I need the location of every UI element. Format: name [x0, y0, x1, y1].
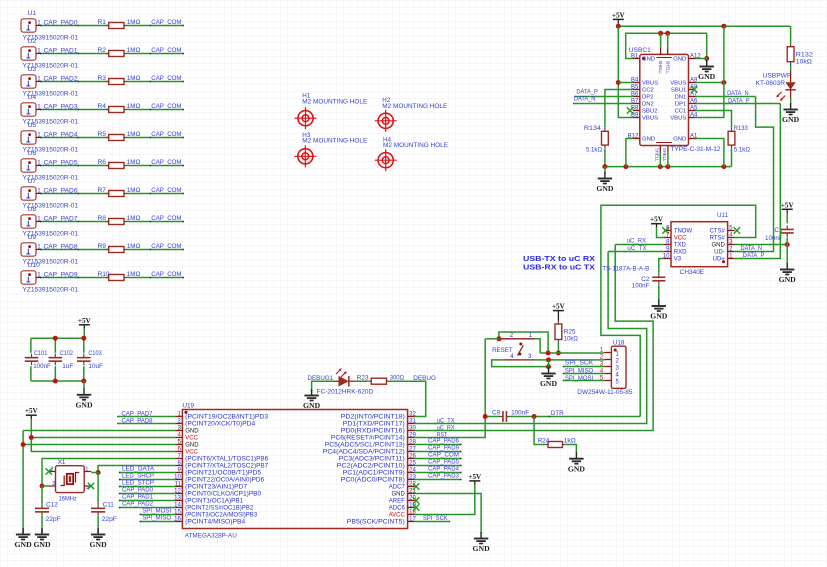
svg-text:(PCINT2/SS#/OC1B)PB2: (PCINT2/SS#/OC1B)PB2 [185, 506, 254, 512]
svg-text:SPI_SCK: SPI_SCK [565, 360, 594, 367]
wire [389, 381, 426, 416]
wire [40, 81, 108, 83]
net label CAP_PAD6 [44, 187, 80, 194]
svg-text:CAP_PAD2: CAP_PAD2 [44, 75, 78, 82]
svg-text:GND: GND [779, 275, 797, 284]
svg-text:100nF: 100nF [511, 410, 529, 417]
wire [667, 33, 669, 47]
pin 20 AREF [389, 494, 417, 504]
wire [618, 26, 633, 117]
net label CAP_COM [149, 75, 181, 82]
wire [658, 285, 660, 301]
wire [415, 472, 462, 474]
resistor R8 [98, 215, 141, 224]
svg-text:KT-0603R: KT-0603R [756, 80, 786, 87]
resistor R7 [98, 187, 141, 196]
wire [626, 139, 633, 167]
svg-text:CAP_COM: CAP_COM [151, 243, 181, 250]
pin 23 PC0(ADC0/PCINT8) [341, 473, 417, 483]
svg-text:TS-1187A-B-A-B: TS-1187A-B-A-B [602, 265, 649, 272]
svg-text:SHELL: SHELL [654, 148, 659, 162]
svg-text:R1: R1 [98, 19, 107, 26]
net label CAP_COM [149, 215, 181, 222]
svg-text:DN1: DN1 [675, 95, 687, 101]
junction [704, 56, 709, 61]
wire [127, 165, 185, 167]
resistor R133 [728, 125, 750, 153]
pin 4 RTS# [710, 231, 735, 241]
svg-text:uC_RX: uC_RX [627, 238, 647, 245]
wire [696, 82, 724, 84]
svg-text:TYPE-C-31-M-12: TYPE-C-31-M-12 [671, 146, 721, 153]
wire [127, 81, 185, 83]
svg-text:PC4(ADC4/SDA/PCINT12): PC4(ADC4/SDA/PCINT12) [323, 450, 405, 456]
svg-text:SBU2: SBU2 [642, 109, 657, 115]
no-connect pin 22 [413, 483, 419, 489]
junction [53, 336, 87, 384]
annotation USB-RX to uC TX [523, 263, 595, 272]
svg-text:(PCINT4/MISO)PB4: (PCINT4/MISO)PB4 [185, 520, 246, 526]
capsense pad U5 [21, 122, 78, 153]
svg-text:GND: GND [782, 115, 800, 124]
svg-text:DW254W-11-05-85: DW254W-11-05-85 [577, 389, 633, 396]
no-connect SBU2 [627, 107, 633, 113]
svg-text:USB-RX to uC TX: USB-RX to uC TX [523, 263, 595, 272]
wire [127, 249, 185, 251]
crystal X1 16MHz [48, 459, 91, 502]
net label CAP_PAD6 [428, 438, 459, 445]
net label SPI_MOSI [563, 375, 594, 382]
svg-text:DATA_P: DATA_P [576, 89, 598, 96]
wire [40, 221, 108, 223]
svg-text:VCC: VCC [185, 436, 198, 442]
wire [696, 139, 724, 167]
svg-text:CAP_PAD1: CAP_PAD1 [44, 47, 78, 54]
wire [127, 193, 185, 195]
svg-text:R8: R8 [98, 215, 107, 222]
no-connect SBU1 [691, 86, 697, 92]
wire [696, 103, 781, 105]
power +5V [25, 407, 39, 419]
ground [15, 528, 33, 549]
svg-text:SHELL: SHELL [658, 61, 663, 75]
net label CAP_PAD5 [428, 459, 459, 466]
svg-text:(PCINT23/AIN1)PD7: (PCINT23/AIN1)PD7 [185, 485, 248, 491]
svg-text:GND: GND [568, 464, 586, 473]
pin 29 PC6(RESET#/PCINT14) [331, 431, 417, 441]
svg-text:R2: R2 [98, 47, 107, 54]
svg-text:DN2: DN2 [642, 102, 654, 108]
svg-text:U18: U18 [613, 340, 625, 347]
svg-text:22pF: 22pF [46, 516, 61, 523]
svg-text:U9: U9 [28, 234, 37, 241]
wire [40, 25, 108, 27]
power +5V [612, 11, 626, 23]
svg-text:LED_SHCP: LED_SHCP [122, 473, 154, 480]
svg-text:RESET: RESET [492, 347, 513, 354]
wire [485, 416, 500, 418]
wire [618, 82, 633, 84]
net label DEBUG [413, 375, 436, 382]
svg-text:+5V: +5V [612, 11, 626, 19]
svg-text:CAP_COM: CAP_COM [151, 103, 181, 110]
net label CAP_PAD3 [44, 103, 80, 110]
mounting hole H1 [295, 92, 368, 129]
wire [499, 332, 548, 353]
pin 1 (PCINT19/OC2B/INT1)PD3 [175, 410, 269, 420]
junction [40, 484, 45, 489]
svg-text:U10: U10 [28, 262, 41, 269]
svg-text:GND: GND [75, 400, 93, 409]
wire [119, 507, 176, 509]
junction [532, 414, 537, 419]
svg-text:RXD: RXD [674, 250, 687, 256]
svg-text:AVCC: AVCC [389, 513, 406, 519]
net label CAP_COM [149, 103, 181, 110]
capacitor C2 [632, 273, 665, 289]
resistor R132 [787, 43, 813, 65]
pin 7 (PCINT6/XTAL1/TOSC1)PB6 [175, 452, 268, 462]
svg-text:CAP_COM: CAP_COM [151, 75, 181, 82]
svg-text:+5V: +5V [781, 201, 795, 209]
svg-text:CTS#: CTS# [709, 229, 725, 235]
junction [546, 357, 551, 362]
wire [54, 338, 56, 381]
svg-text:LED_DATA: LED_DATA [122, 466, 155, 473]
wire [786, 213, 788, 223]
pin A8 SBU1 [671, 84, 698, 93]
svg-text:22pF: 22pF [102, 516, 117, 523]
connector U18 DW254W-11-05-85 [577, 340, 633, 397]
resistor R2 [98, 47, 141, 56]
svg-text:GND: GND [540, 379, 558, 388]
pin 14 (PCINT2/SS#/OC1B)PB2 [174, 501, 254, 511]
pin 32 PD2(INT0/PCINT18) [341, 410, 417, 420]
svg-text:100nF: 100nF [632, 283, 650, 290]
svg-text:U2: U2 [28, 38, 37, 45]
svg-text:CAP_PAD3: CAP_PAD3 [428, 473, 459, 480]
wire [564, 380, 605, 382]
svg-text:(PCINT7/XTAL2/TOSC2)PB7: (PCINT7/XTAL2/TOSC2)PB7 [185, 464, 269, 470]
wire [510, 416, 641, 418]
svg-text:(PCINT22/OC0A/AIN0)PD6: (PCINT22/OC0A/AIN0)PD6 [185, 478, 265, 484]
svg-text:R3: R3 [98, 75, 107, 82]
resistor R3 [98, 75, 141, 84]
net label uC_TX [435, 417, 456, 424]
resistor R10 [98, 271, 141, 280]
wire [706, 59, 708, 63]
LED USBPWR KT-0603R [756, 65, 796, 104]
svg-text:GND: GND [33, 540, 51, 549]
wire [127, 109, 185, 111]
svg-text:R4: R4 [98, 103, 107, 110]
net label SPI_MISO [142, 515, 171, 522]
wire [564, 366, 605, 368]
svg-text:CAP_PAD0: CAP_PAD0 [122, 487, 153, 494]
svg-text:CAP_PAD2: CAP_PAD2 [122, 501, 153, 508]
svg-text:VCC: VCC [674, 236, 687, 242]
svg-text:CAP_PAD9: CAP_PAD9 [44, 271, 78, 278]
svg-text:C101: C101 [34, 350, 48, 357]
svg-text:CAP_PAD0: CAP_PAD0 [44, 19, 78, 26]
svg-text:GND: GND [698, 72, 716, 81]
wire [83, 381, 85, 389]
svg-text:PC6(RESET#/PCINT14): PC6(RESET#/PCINT14) [331, 436, 405, 442]
junction [546, 364, 551, 369]
svg-text:V3: V3 [674, 257, 682, 263]
svg-text:CAP_PAD7: CAP_PAD7 [44, 215, 78, 222]
resistor R9 [98, 243, 141, 252]
svg-text:LED_STCP: LED_STCP [122, 480, 154, 487]
pin 5 CTS# [709, 224, 734, 234]
ground [473, 532, 491, 553]
wire [485, 338, 499, 340]
net label CAP_COM [149, 243, 181, 250]
wire [790, 26, 792, 43]
net label CAP_PAD0 [44, 19, 80, 26]
annotation USB-TX to uC RX [523, 254, 595, 263]
svg-text:1kΩ: 1kΩ [564, 438, 576, 445]
svg-text:C1: C1 [774, 227, 783, 234]
pin 7 VCC [664, 231, 687, 241]
svg-text:R133: R133 [734, 125, 749, 132]
svg-text:M2 MOUNTING HOLE: M2 MOUNTING HOLE [382, 103, 447, 110]
pin 3 GND [711, 238, 734, 248]
wire [119, 500, 176, 502]
svg-text:AREF: AREF [389, 499, 405, 505]
junction [658, 31, 670, 36]
pin 27 PC4(ADC4/SDA/PCINT12) [323, 445, 417, 455]
wire [626, 33, 707, 58]
net label DATA_N [725, 90, 749, 97]
wire [534, 417, 545, 445]
ground [650, 300, 668, 321]
wire [40, 53, 108, 55]
capsense pad U8 [21, 206, 78, 237]
svg-text:VBUS: VBUS [670, 116, 686, 122]
svg-text:CAP_COM: CAP_COM [151, 215, 181, 222]
wire [667, 153, 669, 167]
net label DATA_P [574, 89, 598, 98]
svg-text:3: 3 [52, 481, 55, 487]
wire [40, 109, 108, 111]
wire [657, 228, 665, 238]
svg-text:(PCINT20/XCK/T0)PD4: (PCINT20/XCK/T0)PD4 [185, 422, 256, 428]
wire [23, 430, 175, 432]
svg-text:U8: U8 [28, 206, 37, 213]
junction [785, 242, 790, 247]
capacitor C11 [91, 502, 117, 523]
wire [492, 360, 549, 367]
wire [617, 23, 619, 26]
pin 25 PC2(ADC2/PCINT10) [337, 459, 417, 469]
pin 2 (PCINT20/XCK/T0)PD4 [175, 417, 256, 427]
junction [602, 164, 726, 169]
pin 10 (PCINT22/OC0A/AIN0)PD6 [174, 473, 265, 483]
ground [75, 388, 93, 409]
MCU U19 ATMEGA328P-AU box [182, 403, 407, 540]
pin 9 RXD [664, 245, 687, 255]
ground [568, 452, 586, 473]
net label CAP_PAD5 [44, 159, 80, 166]
svg-text:C9: C9 [492, 410, 501, 417]
pin SHELL bottom [654, 143, 672, 162]
svg-text:CAP_COM: CAP_COM [151, 47, 181, 54]
net label CAP_COM [149, 19, 181, 26]
wire [415, 465, 462, 467]
wire [574, 103, 633, 105]
svg-text:GND: GND [642, 137, 655, 143]
pin A4 VBUS [670, 112, 698, 121]
net label CAP_PAD9 [428, 445, 459, 452]
wire [696, 111, 732, 128]
pin 9 (PCINT21/OC0B/T1)PD5 [175, 466, 262, 476]
svg-text:ATMEGA328P-AU: ATMEGA328P-AU [185, 533, 237, 540]
wire [40, 165, 108, 167]
capsense pad U2 [21, 38, 78, 69]
junction [483, 414, 488, 419]
net label CAP_PAD4 [428, 466, 459, 473]
wire [139, 521, 175, 523]
wire [415, 252, 647, 424]
no-connect X1 pin4 [88, 483, 94, 489]
wire [40, 249, 108, 251]
svg-text:PC2(ADC2/PCINT10): PC2(ADC2/PCINT10) [337, 464, 405, 470]
net label SPI_MOSI [142, 508, 171, 515]
net label CAP_PAD2 [44, 75, 80, 82]
wire [415, 245, 653, 431]
capsense pad U6 [21, 150, 78, 181]
svg-text:C11: C11 [103, 502, 115, 509]
svg-text:U5: U5 [28, 122, 37, 129]
wire [31, 419, 175, 451]
pin 2 UD- [714, 245, 734, 255]
svg-text:PD2(INT0/PCINT18): PD2(INT0/PCINT18) [341, 415, 405, 421]
svg-text:CH340E: CH340E [680, 269, 704, 276]
svg-text:+5V: +5V [552, 303, 566, 311]
svg-text:CAP_PAD9: CAP_PAD9 [428, 445, 459, 452]
svg-text:USBPWR: USBPWR [763, 73, 793, 80]
svg-text:PD0(RXD/PCINT16): PD0(RXD/PCINT16) [341, 429, 405, 435]
net label CAP_COM [149, 187, 181, 194]
wire [127, 25, 185, 27]
capacitor C1 [765, 225, 794, 242]
wire [604, 167, 606, 173]
svg-text:CC1: CC1 [675, 109, 687, 115]
svg-text:CAP_PAD6: CAP_PAD6 [44, 187, 78, 194]
net label DATA_P [726, 97, 750, 104]
ground [779, 263, 797, 284]
net label DATA_P [741, 252, 765, 260]
USB-UART U11 CH340E box [671, 212, 729, 276]
wire [415, 339, 486, 438]
svg-text:R23: R23 [357, 374, 369, 381]
svg-text:11: 11 [175, 480, 182, 487]
wire [97, 516, 99, 533]
svg-text:CAP_COM: CAP_COM [151, 271, 181, 278]
svg-text:SHELL: SHELL [662, 148, 667, 162]
svg-text:PC0(ADC0/PCINT8): PC0(ADC0/PCINT8) [341, 478, 405, 484]
junction [29, 435, 34, 440]
mounting hole H3 [294, 132, 367, 167]
net label CAP_PAD1 [122, 494, 153, 501]
svg-text:U3: U3 [28, 66, 37, 73]
wire [127, 277, 185, 279]
wire [41, 516, 43, 533]
svg-text:U1: U1 [28, 10, 37, 17]
pin 8 TXD [664, 238, 686, 248]
wire [118, 423, 175, 425]
svg-text:(PCINT19/OC2B/INT1)PD3: (PCINT19/OC2B/INT1)PD3 [185, 415, 269, 421]
no-connect TNOW [662, 227, 668, 233]
svg-text:SPI_MISO: SPI_MISO [142, 515, 171, 522]
net label CAP_PAD8 [44, 243, 80, 250]
svg-text:VBUS: VBUS [670, 81, 686, 87]
svg-text:10uF: 10uF [88, 363, 103, 370]
wire [601, 205, 756, 416]
pin 24 PC1(ADC1/PCINT9) [343, 466, 417, 476]
svg-text:UD+: UD+ [713, 257, 726, 263]
wire [415, 451, 462, 453]
wire [42, 485, 48, 487]
resistor R5 [98, 131, 141, 140]
pin 31 PD1(TXD/PCINT17) [343, 417, 417, 427]
pin 26 PC3(ADC3/PCINT11) [339, 452, 417, 462]
junction [21, 442, 26, 447]
ground [596, 172, 614, 193]
svg-text:GND: GND [90, 540, 108, 549]
net label CAP_COM [149, 159, 181, 166]
svg-text:PC1(ADC1/PCINT9): PC1(ADC1/PCINT9) [343, 471, 405, 477]
svg-text:CAP_PAD3: CAP_PAD3 [44, 103, 78, 110]
svg-text:16MHz: 16MHz [59, 496, 77, 503]
wire [696, 58, 707, 60]
svg-text:DEBUG1: DEBUG1 [308, 375, 334, 382]
pin 11 (PCINT23/AIN1)PD7 [175, 480, 248, 490]
net label SPI_SCK [563, 360, 594, 368]
capacitor C12 [35, 502, 61, 523]
resistor R23 [357, 374, 404, 384]
wire [98, 466, 175, 473]
svg-text:RTS#: RTS# [710, 236, 726, 242]
wire [127, 53, 185, 55]
net label DATA_N [573, 96, 596, 105]
net label CAP_PAD7 [117, 410, 153, 417]
wire [40, 193, 108, 195]
net label uC_RX [435, 424, 456, 431]
svg-text:GND: GND [303, 401, 321, 410]
pin B1 GND [631, 53, 655, 62]
net label uC_TX [625, 245, 648, 253]
svg-text:C102: C102 [60, 350, 74, 357]
svg-text:VBUS: VBUS [642, 81, 658, 87]
wire [139, 514, 175, 516]
pin A1 GND [673, 133, 698, 142]
wire [735, 244, 788, 246]
junction [616, 24, 727, 29]
svg-text:CAP_COM: CAP_COM [151, 159, 181, 166]
wire [735, 97, 774, 252]
pin A9 VBUS [670, 77, 698, 86]
wire [415, 479, 462, 481]
ground [303, 389, 321, 410]
svg-text:DP2: DP2 [642, 95, 653, 101]
pin 6 TNOW [664, 224, 692, 234]
pin 4 VCC [175, 431, 198, 441]
svg-text:GND: GND [596, 184, 614, 193]
svg-text:(PCINT3/OC2A/MOSI)PB3: (PCINT3/OC2A/MOSI)PB3 [185, 513, 258, 519]
net label CAP_PAD3 [428, 473, 459, 480]
